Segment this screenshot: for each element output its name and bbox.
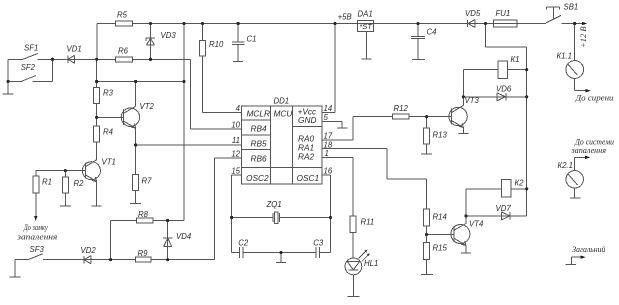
transistor VT1: [82, 160, 100, 182]
terminal arrow to ignition system: [585, 156, 591, 160]
wire R3-R4 junction segment: [96, 104, 98, 127]
relay coil K1: [498, 61, 508, 79]
svg-text:R15: R15: [433, 244, 448, 253]
wire R6 right to RB4 pin10: [133, 59, 242, 129]
svg-text:К2.1: К2.1: [558, 161, 573, 170]
junction R3 top rail: [95, 80, 98, 83]
wire rail y=81.5 from R3 top to vertical B: [97, 81, 184, 83]
svg-text:К1: К1: [511, 55, 520, 64]
junction bus-K1.1: [573, 22, 576, 25]
resistor R6: [116, 57, 133, 62]
pushbutton SB1: [546, 7, 561, 23]
junction VT4 collector-VD7: [464, 214, 467, 217]
resistor R1: [33, 176, 39, 193]
svg-text:R4: R4: [103, 128, 114, 137]
junction OSC2-ZQ1: [230, 216, 233, 219]
switch SF2: [21, 76, 36, 82]
resistor R14: [424, 209, 430, 226]
svg-text:DA1: DA1: [358, 10, 373, 19]
ground DA1: [361, 58, 371, 60]
junction R8-VD4: [166, 219, 169, 222]
svg-text:15: 15: [231, 167, 240, 176]
junction VT2 collector rail: [134, 80, 137, 83]
junction bus-C4: [417, 22, 420, 25]
relay contact K2.1: [566, 171, 583, 188]
svg-text:К2: К2: [515, 179, 525, 188]
svg-text:VD6: VD6: [496, 85, 512, 94]
wire +5V top bus: [97, 23, 583, 25]
wire R15 bottom to ground: [426, 260, 428, 275]
junction R14-R15-VT4 base: [425, 233, 428, 236]
svg-text:R14: R14: [433, 213, 448, 222]
svg-text:До сирени: До сирени: [574, 93, 613, 103]
junction rail-K1: [525, 68, 528, 71]
ground R15: [421, 274, 433, 276]
svg-text:К1.1: К1.1: [557, 52, 572, 61]
wire SF1 line to VD1 and node X: [8, 58, 116, 60]
svg-text:R11: R11: [361, 218, 375, 227]
wire K2.1 top from ignition arrow: [575, 157, 587, 170]
ground VT3 emitter: [458, 133, 468, 135]
wire VT2 emitter down to R7: [135, 128, 137, 174]
diode VD1: [68, 55, 75, 63]
svg-text:14: 14: [324, 104, 333, 113]
svg-text:R8: R8: [138, 210, 149, 219]
wire VD7 line: [466, 215, 527, 217]
svg-text:До замку: До замку: [23, 223, 48, 232]
wire R8 left riser to SF3 line: [110, 221, 112, 260]
wire R11 to HL1: [352, 233, 354, 259]
svg-text:VT2: VT2: [140, 102, 155, 111]
svg-text:+5В: +5В: [338, 13, 352, 22]
diode VD6: [497, 93, 506, 101]
svg-text:16: 16: [324, 167, 333, 176]
capacitor C3: [316, 247, 319, 258]
transistor VT4: [451, 224, 470, 246]
wire R4 bottom to VT1 collector: [96, 142, 98, 160]
wire OSC2 pin15 to crystal column: [232, 175, 242, 253]
junction bus-vertB: [182, 22, 185, 25]
wire +12V rail drop to relay column: [485, 24, 526, 216]
wire VT4 base: [427, 234, 455, 236]
wire VD6 line: [463, 96, 526, 98]
svg-text:VT4: VT4: [469, 220, 484, 229]
wire VD3 branch: [150, 24, 152, 60]
diode VD2: [84, 256, 91, 264]
svg-text:R6: R6: [118, 47, 129, 56]
wire R13 branch: [426, 117, 428, 154]
ground GND pin5: [337, 127, 347, 129]
ground SF3: [9, 276, 20, 278]
ground R13: [421, 153, 432, 155]
resistor R11: [350, 216, 356, 233]
junction C2-C3 ground: [279, 251, 282, 254]
svg-text:5: 5: [324, 113, 329, 122]
svg-text:VT3: VT3: [465, 96, 480, 105]
MCU box pin names: [246, 107, 319, 184]
wire +Vcc pin14 riser: [322, 24, 335, 113]
svg-text:MCU: MCU: [274, 109, 294, 119]
ground R7: [130, 203, 141, 205]
svg-text:FU1: FU1: [496, 9, 511, 18]
junction VD2-R8 riser: [109, 258, 112, 261]
wire R8 line: [111, 220, 184, 222]
crystal ZQ1: [273, 212, 279, 224]
junction OSC1-ZQ1: [329, 216, 332, 219]
svg-text:1: 1: [325, 149, 329, 158]
capacitor C2: [240, 247, 243, 258]
resistor R4: [94, 126, 100, 142]
op-amp U1 MCU box DD1: [242, 106, 323, 184]
wire K1.1 bottom to siren arrow: [575, 78, 587, 90]
wire RA0 pin17 riser to R12 line: [322, 117, 353, 140]
junction R1-R2-VT1 base: [64, 169, 67, 172]
svg-text:SB1: SB1: [564, 3, 579, 12]
svg-text:R5: R5: [117, 11, 128, 20]
diode VD5: [468, 20, 475, 28]
svg-text:GND: GND: [298, 115, 316, 125]
transistor VT3: [449, 106, 467, 128]
relay contact K1.1: [566, 61, 584, 79]
wire vertical B bus-to-R8: [183, 24, 185, 221]
wire VD4 branch: [167, 221, 169, 260]
wire R1 R2 VT1 base net: [36, 171, 86, 177]
svg-text:12: 12: [231, 150, 240, 159]
terminal arrow to siren: [585, 89, 591, 93]
resistor R7: [133, 175, 139, 191]
svg-text:MCLR: MCLR: [247, 109, 271, 119]
wire R1 bottom to ignition-lock arrow: [35, 193, 37, 217]
wire OSC1 pin16 to crystal column: [322, 175, 331, 253]
capacitor C4: [411, 24, 425, 60]
svg-text:DD1: DD1: [274, 97, 290, 106]
resistor R12: [393, 114, 410, 119]
fuse FU1: [494, 20, 518, 27]
capacitor C1: [232, 42, 245, 44]
svg-text:*ST: *ST: [359, 22, 373, 31]
resistor R8: [137, 218, 154, 223]
svg-text:4: 4: [236, 104, 241, 113]
wire VT3 emitter stub: [462, 128, 464, 134]
resistor R3: [94, 88, 100, 104]
junction rail-K2: [525, 187, 528, 190]
ground HL1: [347, 295, 359, 297]
resistor R2: [62, 177, 68, 193]
wire SF3 left ground riser: [14, 260, 16, 277]
terminal arrow +12V: [582, 22, 588, 26]
relay coil K2: [501, 180, 511, 198]
svg-text:VD1: VD1: [67, 45, 82, 54]
wire R14 R15 segment: [426, 226, 428, 243]
svg-text:R12: R12: [394, 104, 409, 113]
wire C2C3 mid ground stub: [280, 253, 282, 263]
svg-text:VD7: VD7: [496, 204, 512, 213]
svg-text:запалення: запалення: [16, 233, 58, 242]
svg-text:VD3: VD3: [161, 31, 177, 40]
svg-text:C1: C1: [247, 35, 257, 44]
wire K2.1 bottom stub: [574, 188, 576, 198]
wire VT2 base: [97, 116, 124, 118]
svg-text:RB5: RB5: [251, 139, 268, 149]
svg-text:17: 17: [324, 132, 333, 141]
svg-text:R10: R10: [209, 40, 224, 49]
junction R3-R4-VT2 base: [95, 116, 98, 119]
diode VD4: [163, 238, 172, 247]
wire R7 bottom to ground: [135, 191, 137, 204]
svg-text:ZQ1: ZQ1: [266, 200, 282, 209]
junction bus-VD3: [149, 22, 152, 25]
wire C2 C3 bottom line: [232, 252, 331, 254]
junction bus-C1: [237, 22, 240, 25]
junction rail-vertB: [182, 80, 185, 83]
ground R2: [60, 205, 71, 207]
resistor R5: [115, 21, 132, 26]
svg-text:VD5: VD5: [465, 9, 481, 18]
svg-text:C2: C2: [238, 239, 249, 248]
wire HL1 to ground: [352, 275, 354, 296]
svg-text:10: 10: [231, 121, 240, 130]
common terminal Zagalnyi: [566, 255, 586, 264]
switch SF3: [28, 254, 43, 260]
wire C1 branch: [237, 24, 239, 62]
wire SF3 VD2 R9 bottom line: [15, 259, 215, 261]
svg-text:+12 В: +12 В: [578, 26, 588, 48]
voltage regulator DA1: [358, 20, 374, 58]
svg-text:OSC2: OSC2: [246, 173, 269, 183]
wire SF2 branch and left ground riser: [8, 59, 52, 93]
svg-text:VD4: VD4: [176, 232, 192, 241]
resistor R9: [136, 257, 152, 262]
junction VT3 collector-VD6: [462, 95, 465, 98]
ground VT4 emitter: [461, 252, 471, 254]
pin numbers: [231, 104, 333, 176]
svg-text:RB6: RB6: [251, 154, 268, 164]
junction bus-R10: [201, 22, 204, 25]
junction rail-VD6: [525, 95, 528, 98]
terminal arrow to ignition lock: [34, 216, 37, 221]
diode VD7: [502, 212, 511, 220]
junction bus-Vcc riser: [333, 22, 336, 25]
wire node X down to y=81.5 rail: [96, 59, 98, 81]
svg-text:C4: C4: [427, 28, 438, 37]
wire R9 right riser to RB6 pin12: [215, 158, 242, 260]
node X VD1-R5-R6: [95, 58, 98, 61]
svg-text:HL1: HL1: [364, 259, 378, 268]
svg-text:11: 11: [232, 136, 240, 145]
svg-text:SF3: SF3: [30, 245, 45, 254]
ground C1: [233, 61, 243, 63]
ground VT1 emitter: [92, 205, 102, 207]
wire R2 bottom to ground: [64, 193, 66, 206]
svg-text:R7: R7: [142, 177, 153, 186]
junction R9-VD4: [166, 258, 169, 261]
wire RA1 pin18 route to R14: [322, 149, 427, 209]
svg-text:R9: R9: [138, 249, 149, 258]
wire VT2 collector riser: [135, 82, 137, 107]
ground bar K2.1: [570, 197, 580, 199]
junction bus-relay rail: [484, 22, 487, 25]
svg-text:SF1: SF1: [24, 44, 38, 53]
svg-text:Загальний: Загальний: [572, 244, 606, 254]
resistor R15: [424, 243, 430, 260]
wire R10 branch to MCLR pin4: [203, 24, 242, 113]
junction SF2-ground riser: [7, 80, 10, 83]
ground SF1 SF2: [3, 93, 14, 95]
wire VT3 collector riser and K1 feed: [463, 70, 526, 106]
junction R12-R13: [425, 115, 428, 118]
transistor VT2: [121, 106, 139, 128]
svg-text:RA2: RA2: [298, 152, 315, 162]
svg-text:C3: C3: [313, 239, 324, 248]
wire R3 top stub: [96, 82, 98, 88]
wire VT4 emitter stub: [465, 246, 467, 253]
resistor R10: [200, 41, 206, 57]
wire R5 left riser: [96, 24, 98, 60]
svg-text:VT1: VT1: [102, 158, 116, 167]
junction VT2 emitter-RB5: [134, 143, 137, 146]
svg-text:SF2: SF2: [21, 63, 36, 72]
svg-text:OSC1: OSC1: [297, 173, 320, 183]
svg-text:R3: R3: [103, 89, 114, 98]
zener diode VD3: [146, 38, 155, 45]
wire RA2 pin1 to R11: [322, 158, 353, 217]
svg-text:R2: R2: [74, 179, 85, 188]
wire RB5 pin11 line to VT2 emitter node: [136, 144, 242, 146]
ground C2 C3: [276, 261, 286, 263]
wire GND pin5 stub: [322, 122, 342, 128]
wire VT4 collector riser and K2 feed: [466, 189, 527, 224]
junction SF2-SF1: [51, 58, 54, 61]
wire R12 line to VT3 base: [353, 116, 452, 118]
svg-text:запалення: запалення: [571, 145, 606, 155]
switch SF1: [23, 53, 38, 59]
wire K1.1 column from bus: [574, 24, 576, 61]
wire ZQ1 line: [232, 217, 331, 219]
svg-text:R1: R1: [42, 178, 52, 187]
svg-text:RB4: RB4: [251, 124, 268, 134]
wire VT1 emitter to ground: [96, 182, 98, 206]
svg-text:R13: R13: [433, 131, 448, 140]
ground C4: [412, 59, 425, 61]
svg-text:VD2: VD2: [81, 246, 97, 255]
resistor R13: [424, 128, 430, 144]
LED HL1: [345, 250, 370, 275]
junction VD3-R6: [149, 58, 152, 61]
